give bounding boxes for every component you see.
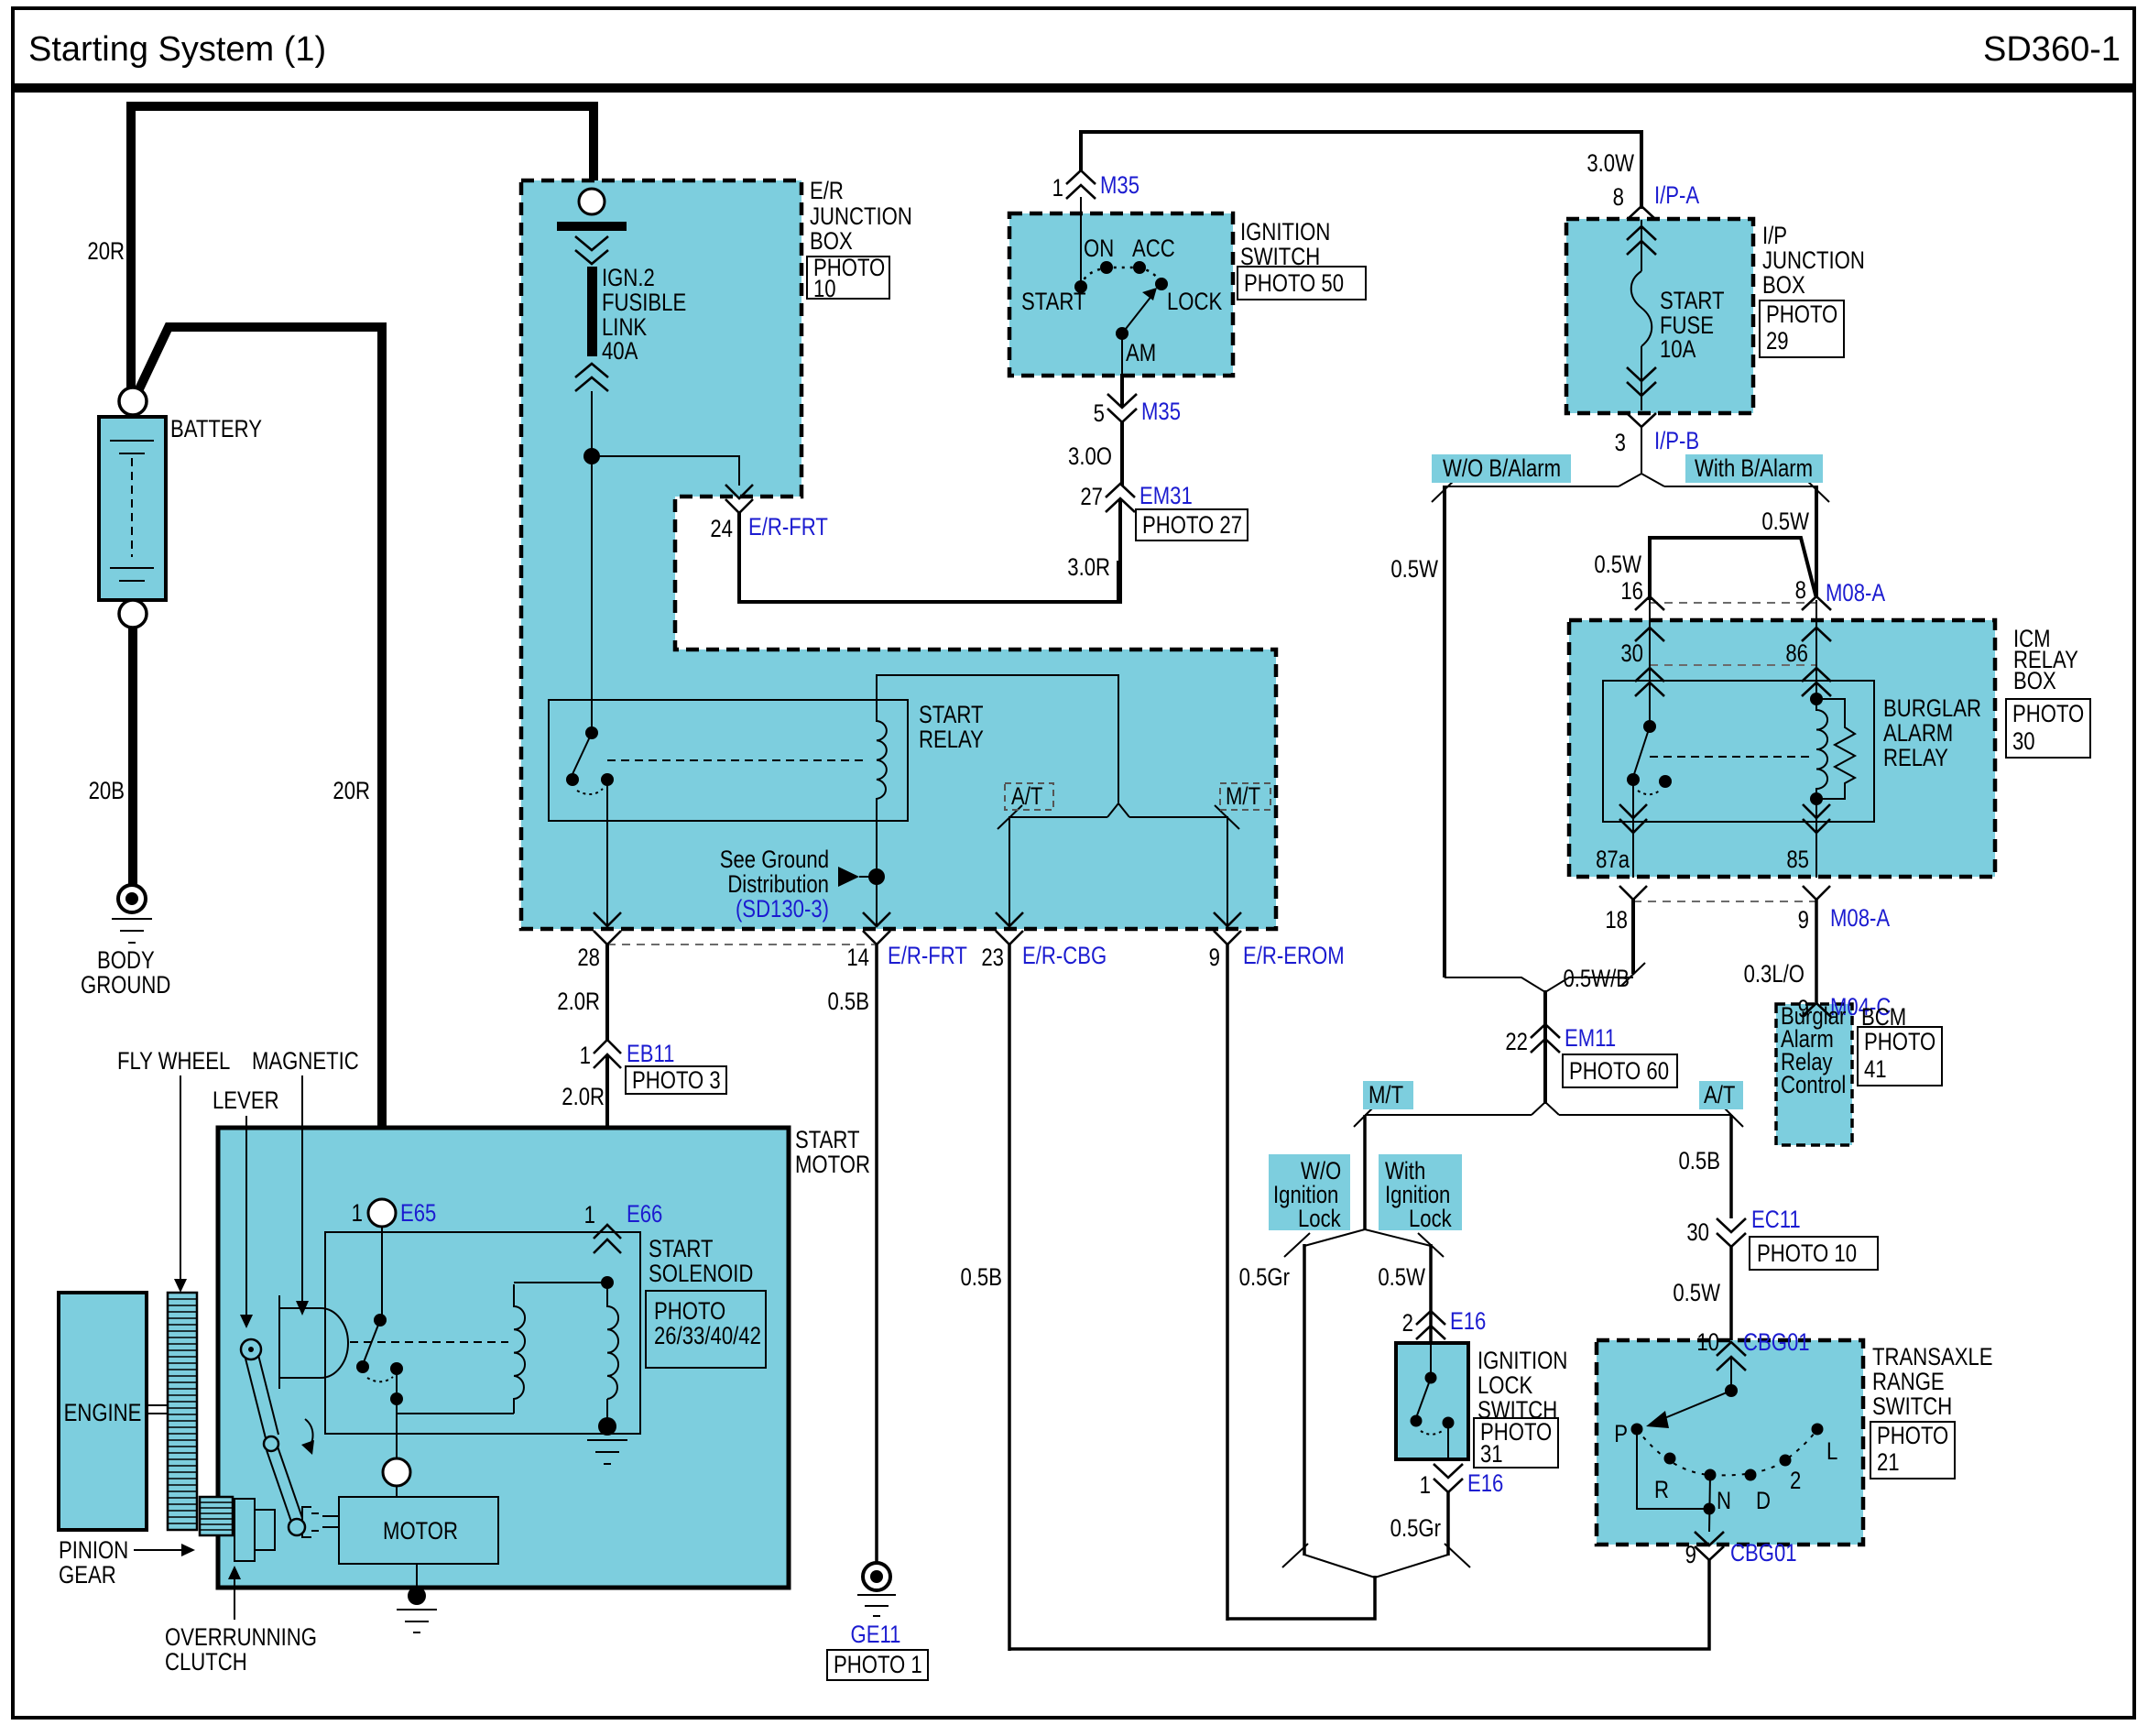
wire AM down <box>1121 333 1123 376</box>
svg-text:IGNITION: IGNITION <box>1477 1348 1567 1375</box>
ignition lock switch box <box>1396 1343 1468 1459</box>
svg-text:86: 86 <box>1785 640 1808 668</box>
wire With branch down <box>1815 486 1818 598</box>
svg-text:22: 22 <box>1505 1029 1528 1056</box>
label A/T <box>1699 1081 1743 1109</box>
label box PHOTO 27 <box>1136 509 1248 540</box>
svg-text:30: 30 <box>1686 1219 1709 1247</box>
svg-text:85: 85 <box>1786 846 1809 874</box>
svg-text:16: 16 <box>1620 578 1643 606</box>
wire coil to A/T M/T fork <box>877 675 1118 802</box>
start relay coil <box>877 721 887 804</box>
svg-text:PHOTO 3: PHOTO 3 <box>632 1067 721 1095</box>
label With Ignition Lock <box>1379 1154 1462 1230</box>
svg-text:BOX: BOX <box>1762 272 1805 300</box>
svg-text:20R: 20R <box>87 238 125 266</box>
svg-text:PHOTO 1: PHOTO 1 <box>834 1652 922 1679</box>
body ground symbol <box>112 885 152 943</box>
solenoid B+ stud wire <box>381 1227 383 1316</box>
GE11 ground symbol <box>857 1563 896 1616</box>
svg-text:CBG01: CBG01 <box>1730 1540 1797 1567</box>
svg-text:Distribution: Distribution <box>727 871 829 899</box>
svg-text:CLUTCH: CLUTCH <box>165 1649 247 1676</box>
svg-text:I/P: I/P <box>1762 223 1787 250</box>
svg-text:BODY: BODY <box>97 947 155 975</box>
switch arm AM to LOCK with arrow <box>1122 295 1152 333</box>
wire fusible link down to relay <box>591 391 593 729</box>
wire fuse to bottom <box>1641 346 1642 410</box>
transaxle switch internals <box>1730 1357 1732 1388</box>
svg-text:START: START <box>1021 289 1085 316</box>
wire E/R-FRT 14 down to GE11 <box>875 944 878 1563</box>
ignition switch box <box>1009 213 1233 376</box>
svg-text:ACC: ACC <box>1132 235 1175 263</box>
svg-text:3.0O: 3.0O <box>1068 443 1112 471</box>
wire A/T branch down 0.5B <box>1729 1115 1733 1218</box>
label box PHOTO 60 <box>1563 1054 1677 1087</box>
svg-text:27: 27 <box>1080 484 1103 511</box>
svg-text:With B/Alarm: With B/Alarm <box>1695 455 1813 483</box>
connector 9 E/R-EROM chevrons <box>1214 912 1241 944</box>
svg-text:10: 10 <box>813 276 836 303</box>
wire: battery negative to body ground (20B) <box>128 628 137 885</box>
wire into START contact <box>1080 197 1082 287</box>
connector 1 E16 chevrons <box>1434 1464 1463 1492</box>
svg-text:3.0R: 3.0R <box>1067 554 1110 582</box>
svg-text:0.5B: 0.5B <box>960 1264 1002 1292</box>
connector 5 M35 chevrons <box>1107 394 1137 422</box>
svg-text:E/R-FRT: E/R-FRT <box>748 514 828 541</box>
svg-text:M/T: M/T <box>1226 783 1260 811</box>
wire 18 down 0.5W/B <box>1631 900 1635 974</box>
svg-text:8: 8 <box>1795 577 1806 605</box>
transaxle range switch box <box>1597 1340 1863 1545</box>
connector 3 I/P-B chevron <box>1627 413 1656 427</box>
svg-text:2.0R: 2.0R <box>562 1084 605 1111</box>
svg-text:26/33/40/42: 26/33/40/42 <box>654 1323 761 1350</box>
svg-text:EM31: EM31 <box>1139 483 1193 510</box>
svg-text:EC11: EC11 <box>1751 1206 1801 1234</box>
svg-text:PHOTO: PHOTO <box>2012 701 2084 728</box>
svg-text:24: 24 <box>710 516 733 543</box>
wire relay switch output down <box>606 780 608 927</box>
label box PHOTO 29 <box>1760 300 1844 357</box>
svg-text:10: 10 <box>1696 1329 1719 1357</box>
label box PHOTO 26/33/40/42 <box>646 1291 766 1368</box>
svg-text:PHOTO 27: PHOTO 27 <box>1142 512 1242 540</box>
P and N to output <box>1637 1429 1708 1509</box>
solenoid output node <box>390 1392 403 1405</box>
label box PHOTO 31 <box>1474 1418 1558 1468</box>
svg-text:E/R-EROM: E/R-EROM <box>1243 943 1345 970</box>
svg-text:9: 9 <box>1798 907 1809 934</box>
motor ground <box>416 1564 418 1588</box>
svg-text:3.0W: 3.0W <box>1586 150 1634 178</box>
svg-text:28: 28 <box>577 944 600 972</box>
svg-text:ENGINE: ENGINE <box>64 1400 142 1427</box>
chevrons below fusible link <box>575 364 608 391</box>
svg-text:8: 8 <box>1613 184 1624 212</box>
label box PHOTO 1 <box>827 1650 928 1680</box>
wire I/P-B to alarm option fork <box>1641 427 1642 475</box>
svg-text:M35: M35 <box>1141 399 1181 426</box>
svg-text:START: START <box>919 702 983 729</box>
0.5W jumper loop 16 to 8 <box>1650 538 1816 600</box>
coil top link <box>514 1282 607 1283</box>
dotted travel arc <box>1081 267 1161 287</box>
svg-text:FLY WHEEL: FLY WHEEL <box>117 1048 230 1075</box>
label box PHOTO 21 <box>1870 1422 1955 1479</box>
crankshaft links <box>147 1404 168 1406</box>
svg-text:1: 1 <box>580 1043 591 1070</box>
chevrons crossing ICM bottom <box>1619 886 1647 900</box>
chevrons below bus bar <box>575 236 608 264</box>
svg-text:N: N <box>1717 1488 1731 1515</box>
ignition switch contacts <box>1074 280 1087 293</box>
solenoid dashed axis <box>350 1341 508 1343</box>
battery feed terminal circle in E/R JB <box>579 189 605 214</box>
pull-in coil <box>514 1284 525 1414</box>
svg-text:LOCK: LOCK <box>1167 289 1223 316</box>
svg-text:0.5W: 0.5W <box>1761 508 1809 536</box>
chevrons crossing ICM top <box>1635 628 1664 641</box>
svg-text:10A: 10A <box>1660 336 1696 364</box>
svg-text:RELAY: RELAY <box>919 726 984 754</box>
dashed connector row 28-14 <box>607 944 877 945</box>
relay dashed link <box>1650 756 1810 758</box>
svg-text:A/T: A/T <box>1704 1082 1735 1109</box>
svg-text:E66: E66 <box>627 1201 662 1228</box>
label box PHOTO 3 <box>626 1066 726 1094</box>
chevrons crossing relay bottom <box>1619 804 1647 833</box>
chevrons inside box top <box>1627 226 1656 255</box>
chevrons above box bottom <box>1627 367 1656 396</box>
svg-text:PINION: PINION <box>59 1537 128 1565</box>
svg-text:PHOTO 60: PHOTO 60 <box>1569 1058 1669 1086</box>
svg-text:0.5W: 0.5W <box>1594 551 1641 579</box>
junction node dot <box>583 448 600 464</box>
relay coil output wire <box>1815 799 1817 878</box>
wire W/O ignition lock 0.5Gr <box>1303 1244 1306 1556</box>
svg-text:M35: M35 <box>1100 172 1139 200</box>
svg-text:I/P-B: I/P-B <box>1654 428 1699 455</box>
wire 0.5W to CBG01 <box>1729 1245 1733 1342</box>
solenoid switch <box>374 1314 387 1327</box>
pinion gear block <box>200 1497 233 1535</box>
start fuse element <box>1631 271 1652 346</box>
svg-text:MAGNETIC: MAGNETIC <box>252 1048 359 1075</box>
wire 28 to EB11 <box>605 943 609 1042</box>
svg-text:0.5Gr: 0.5Gr <box>1239 1264 1290 1292</box>
label With B/Alarm <box>1685 454 1823 483</box>
wire relay coil ground side down <box>876 804 878 927</box>
svg-text:E/R: E/R <box>810 178 844 205</box>
svg-text:P: P <box>1614 1421 1628 1448</box>
chevrons crossing relay top <box>1635 668 1664 696</box>
connector 24 E/R-FRT chevrons <box>725 485 753 513</box>
svg-text:0.5W: 0.5W <box>1378 1264 1425 1292</box>
svg-text:E16: E16 <box>1467 1470 1503 1498</box>
svg-text:21: 21 <box>1877 1449 1900 1477</box>
svg-text:5: 5 <box>1094 400 1105 428</box>
svg-text:0.5B: 0.5B <box>1678 1148 1720 1175</box>
M/T A/T option fork from EM11 <box>1532 1102 1559 1115</box>
svg-text:ON: ON <box>1084 235 1114 263</box>
wire: battery positive cable to start motor (20R) <box>136 327 382 1200</box>
start solenoid box <box>325 1232 640 1434</box>
svg-text:87a: 87a <box>1596 846 1630 874</box>
wire W/O branch down <box>1443 486 1446 977</box>
svg-text:AM: AM <box>1126 340 1156 367</box>
ICM relay box <box>1569 620 1995 877</box>
start relay dashed link <box>607 759 868 761</box>
connector 10 CBG01 chevrons <box>1717 1342 1746 1370</box>
svg-text:M/T: M/T <box>1368 1082 1403 1109</box>
label box PHOTO 10 <box>807 257 889 299</box>
svg-text:Control: Control <box>1781 1072 1846 1099</box>
svg-text:PHOTO 50: PHOTO 50 <box>1244 270 1344 298</box>
connector row M08-A bottom <box>1633 901 1816 902</box>
title separator bar <box>13 83 2134 93</box>
svg-text:(SD130-3): (SD130-3) <box>736 896 829 923</box>
label M/T dashed <box>1220 783 1270 810</box>
svg-text:20R: 20R <box>333 778 370 805</box>
svg-text:JUNCTION: JUNCTION <box>810 203 912 231</box>
option fork A/T / M/T <box>1107 803 1129 817</box>
wire: battery positive cable to E/R junction box (20R) <box>131 106 594 396</box>
connector 1 EB11 chevrons <box>594 1040 621 1068</box>
wire EB11 to E66 <box>605 1056 609 1127</box>
wire 9 CBG01 down/left to E/R-CBG <box>1009 1558 1709 1649</box>
hold-in coil <box>607 1284 618 1399</box>
fork W/O / With ignition lock <box>1304 1229 1365 1246</box>
svg-text:0.5B: 0.5B <box>827 988 869 1016</box>
svg-text:GROUND: GROUND <box>81 972 170 999</box>
svg-text:W/O B/Alarm: W/O B/Alarm <box>1443 455 1561 483</box>
svg-text:31: 31 <box>1480 1441 1503 1469</box>
svg-text:L: L <box>1826 1438 1837 1466</box>
lock switch contacts <box>1430 1343 1432 1378</box>
svg-text:JUNCTION: JUNCTION <box>1762 247 1865 275</box>
relay switch output wire <box>1632 780 1634 878</box>
merge of W/O and 87a wires into EM11 <box>1445 977 1633 992</box>
wire 0.5Gr below lock switch <box>1446 1490 1450 1556</box>
E/R junction box (cyan dashed outline) <box>521 180 1276 929</box>
svg-text:OVERRUNNING: OVERRUNNING <box>165 1624 317 1652</box>
svg-text:D: D <box>1756 1488 1771 1515</box>
fly wheel gear <box>168 1293 197 1530</box>
svg-text:0.5W: 0.5W <box>1673 1280 1720 1307</box>
svg-text:LOCK: LOCK <box>1477 1372 1533 1400</box>
wire 3.0O <box>1120 420 1124 486</box>
label box PHOTO 50 <box>1238 267 1366 300</box>
svg-text:SD360-1: SD360-1 <box>1983 30 2121 69</box>
motor box MOTOR <box>339 1497 498 1564</box>
svg-text:14: 14 <box>846 944 869 972</box>
parallel resistor <box>1816 699 1855 799</box>
svg-text:GE11: GE11 <box>851 1621 901 1649</box>
engine box ENGINE <box>59 1293 147 1530</box>
svg-text:PHOTO: PHOTO <box>1877 1423 1948 1450</box>
connector 28 chevrons at box edge <box>594 912 621 944</box>
label M/T <box>1363 1081 1413 1109</box>
svg-text:E/R-CBG: E/R-CBG <box>1022 943 1107 970</box>
svg-text:1: 1 <box>352 1200 363 1228</box>
label A/T dashed <box>1005 783 1053 810</box>
svg-text:41: 41 <box>1864 1056 1887 1084</box>
svg-text:LEVER: LEVER <box>213 1087 279 1115</box>
label box PHOTO 30 <box>2006 699 2090 758</box>
svg-text:23: 23 <box>981 944 1004 972</box>
svg-text:1: 1 <box>584 1202 595 1229</box>
break ticks <box>1432 478 1456 502</box>
svg-text:0.3L/O: 0.3L/O <box>1744 961 1805 988</box>
svg-text:START: START <box>1660 288 1724 315</box>
svg-text:0.5W/B: 0.5W/B <box>1563 966 1630 993</box>
merge of ignition lock branches <box>1282 1544 1308 1567</box>
svg-text:Lock: Lock <box>1409 1206 1452 1233</box>
connector 23 E/R-CBG chevrons <box>996 912 1023 944</box>
burglar relay switch <box>1643 720 1656 733</box>
svg-text:E16: E16 <box>1450 1308 1486 1336</box>
svg-text:BURGLAR: BURGLAR <box>1883 695 1981 723</box>
svg-text:3: 3 <box>1615 430 1626 457</box>
wire M35-1 up to bus <box>1079 130 1083 170</box>
svg-text:I/P-A: I/P-A <box>1654 182 1700 210</box>
svg-text:29: 29 <box>1766 328 1789 355</box>
svg-text:Starting System (1): Starting System (1) <box>28 30 326 69</box>
svg-text:Lock: Lock <box>1298 1206 1341 1233</box>
svg-text:SWITCH: SWITCH <box>1872 1393 1952 1421</box>
burglar alarm relay box <box>1603 681 1874 822</box>
fusible link IGN.2 40A element <box>587 267 597 356</box>
svg-text:E/R-FRT: E/R-FRT <box>888 943 967 970</box>
wire 9 M08-A down 0.3L/O to M04-C <box>1815 900 1818 1004</box>
connector row 30 / 86 <box>1650 664 1816 666</box>
svg-text:9: 9 <box>1685 1542 1696 1569</box>
label W/O Ignition Lock <box>1269 1154 1350 1230</box>
svg-text:TRANSAXLE: TRANSAXLE <box>1872 1344 1993 1371</box>
svg-text:IGN.2: IGN.2 <box>602 265 655 292</box>
wire switch to motor terminal <box>396 1414 398 1458</box>
svg-text:M08-A: M08-A <box>1830 905 1891 933</box>
solenoid ground <box>606 1399 608 1424</box>
svg-text:PHOTO: PHOTO <box>1766 301 1837 329</box>
BCM box <box>1776 1004 1852 1145</box>
svg-text:ALARM: ALARM <box>1883 720 1953 748</box>
connector 14 E/R-FRT chevrons <box>863 912 890 944</box>
svg-text:0.5W: 0.5W <box>1390 556 1438 584</box>
connector 1 M35 chevrons <box>1066 170 1096 199</box>
svg-text:2.0R: 2.0R <box>557 988 600 1016</box>
connector 9 CBG01 chevrons <box>1695 1532 1724 1560</box>
svg-text:START: START <box>649 1236 713 1263</box>
overrunning clutch parts <box>234 1499 275 1561</box>
wire M/T from E/R-EROM down <box>1226 944 1229 1621</box>
label box PHOTO 41 <box>1858 1027 1942 1086</box>
solenoid plunger bracket <box>279 1295 348 1389</box>
svg-text:RELAY: RELAY <box>1883 745 1948 772</box>
svg-text:1: 1 <box>1052 175 1063 202</box>
connector 27 EM31 chevrons <box>1106 484 1135 512</box>
svg-text:PHOTO: PHOTO <box>654 1298 725 1326</box>
svg-text:30: 30 <box>1620 640 1643 668</box>
svg-text:EB11: EB11 <box>627 1041 674 1068</box>
svg-text:BOX: BOX <box>810 228 853 256</box>
lever linkage <box>241 1339 314 1535</box>
connector 2 E16 chevrons <box>1416 1311 1445 1339</box>
start motor box <box>218 1128 789 1588</box>
start relay box <box>549 700 908 821</box>
svg-text:RANGE: RANGE <box>1872 1369 1945 1396</box>
svg-text:R: R <box>1654 1477 1669 1504</box>
wire to fuse <box>1641 220 1642 271</box>
wire E/R-CBG long vertical <box>1008 944 1011 1651</box>
I/P junction box <box>1566 219 1753 413</box>
M/T branch wire down <box>1363 1115 1367 1229</box>
svg-text:IGNITION: IGNITION <box>1240 219 1330 246</box>
connector row M08-A top: 16 / 8 <box>1650 602 1816 604</box>
svg-text:MOTOR: MOTOR <box>383 1518 458 1545</box>
wire branch to 24 E/R-FRT <box>592 456 739 486</box>
svg-text:See Ground: See Ground <box>720 846 829 874</box>
battery BATTERY <box>99 388 166 628</box>
svg-text:1: 1 <box>1420 1472 1431 1500</box>
svg-text:30: 30 <box>2012 728 2035 756</box>
wires into relay <box>1649 600 1651 726</box>
svg-text:FUSIBLE: FUSIBLE <box>602 289 686 317</box>
wire 3.0R from 24 E/R-FRT to EM31 <box>739 511 1118 602</box>
start relay switch <box>585 726 598 739</box>
wire EM31 down to corner (drawn in ERJB section) <box>1118 500 1122 604</box>
svg-text:PHOTO: PHOTO <box>1864 1029 1935 1056</box>
connector 9 M04-C chevron <box>1802 1003 1831 1017</box>
svg-text:PHOTO 10: PHOTO 10 <box>1757 1240 1857 1268</box>
svg-text:20B: 20B <box>89 778 125 805</box>
connector 30 EC11 chevrons <box>1717 1218 1746 1247</box>
svg-text:START: START <box>795 1127 859 1154</box>
terminal circle 1 E65 <box>368 1199 396 1227</box>
svg-text:M08-A: M08-A <box>1826 580 1886 607</box>
svg-text:BOX: BOX <box>2013 668 2056 695</box>
svg-text:40A: 40A <box>602 338 638 366</box>
svg-text:0.5Gr: 0.5Gr <box>1390 1515 1441 1543</box>
svg-text:GEAR: GEAR <box>59 1562 116 1589</box>
label box PHOTO 10 <box>1750 1237 1878 1270</box>
bus bar <box>557 222 627 231</box>
connector 8 I/P-A chevron <box>1627 206 1656 220</box>
svg-text:SOLENOID: SOLENOID <box>649 1261 753 1288</box>
svg-text:E65: E65 <box>400 1200 436 1228</box>
svg-text:MOTOR: MOTOR <box>795 1152 870 1179</box>
svg-text:18: 18 <box>1605 907 1628 934</box>
svg-text:EM11: EM11 <box>1565 1025 1616 1053</box>
connector 22 EM11 chevrons <box>1531 1024 1560 1053</box>
svg-text:BATTERY: BATTERY <box>170 416 262 443</box>
connector 1 E66 chevrons <box>594 1225 621 1253</box>
svg-text:9: 9 <box>1209 944 1220 972</box>
wire With ignition lock 0.5W <box>1429 1244 1433 1343</box>
wire bus to I/P-A <box>1640 130 1643 209</box>
svg-text:2: 2 <box>1790 1468 1801 1495</box>
burglar relay coil <box>1816 699 1827 799</box>
label W/O B/Alarm <box>1432 454 1571 483</box>
svg-text:2: 2 <box>1402 1310 1413 1337</box>
top bus wire 3.0W <box>1081 130 1641 134</box>
svg-text:CBG01: CBG01 <box>1743 1329 1810 1357</box>
svg-text:A/T: A/T <box>1011 783 1042 811</box>
